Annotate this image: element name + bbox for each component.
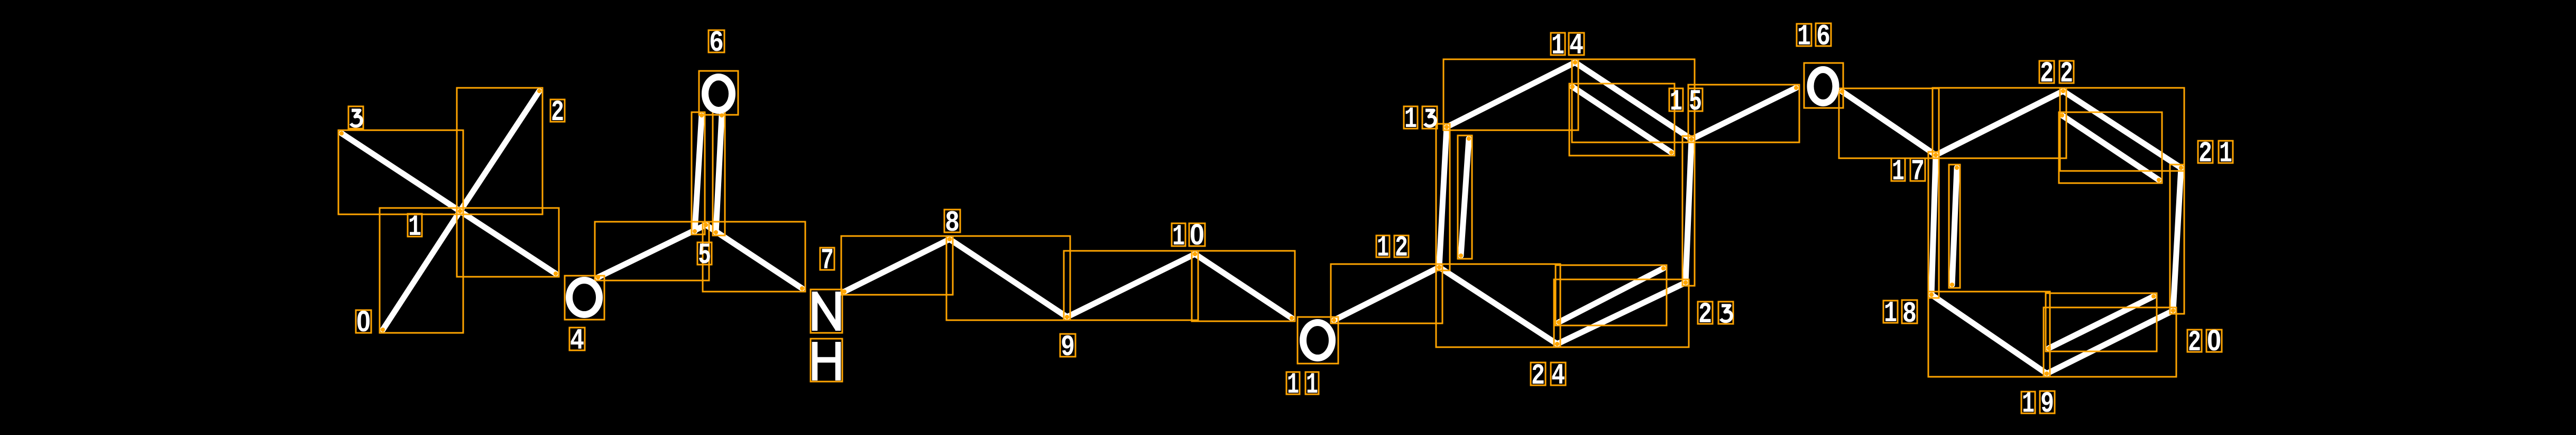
svg-text:1: 1 <box>2219 137 2232 170</box>
box bond 9-10 with endpoint dots <box>1064 251 1198 320</box>
box bond 15-16 with endpoint dots <box>1688 85 1799 142</box>
svg-text:4: 4 <box>1569 29 1584 62</box>
svg-text:8: 8 <box>945 206 960 240</box>
svg-text:7: 7 <box>821 243 834 277</box>
svg-text:1: 1 <box>408 210 421 244</box>
svg-text:1: 1 <box>1551 29 1565 62</box>
aromatic inner 12=13 <box>1461 139 1469 256</box>
double bond 5=6 line A <box>695 115 702 231</box>
label 2 <box>550 99 565 122</box>
svg-text:5: 5 <box>698 238 711 272</box>
box aromatic inner 19=20 with endpoint dots <box>2046 293 2157 351</box>
svg-text:2: 2 <box>2198 137 2212 170</box>
svg-text:1: 1 <box>1884 296 1897 330</box>
label 9 <box>1060 334 1075 357</box>
label 10 <box>1172 223 1185 246</box>
label 23 <box>1698 302 1713 324</box>
svg-text:5: 5 <box>1689 85 1702 119</box>
label 18 <box>1883 301 1898 323</box>
svg-text:2: 2 <box>1395 231 1408 265</box>
svg-text:6: 6 <box>1816 20 1830 53</box>
aromatic inner 14=15 <box>1572 87 1671 152</box>
box bond 16-17 with endpoint dots <box>1839 88 1939 158</box>
box bond 20-21 with endpoint dots <box>2170 165 2184 314</box>
box aromatic inner 17=18 with endpoint dots <box>1949 165 1960 288</box>
svg-text:9: 9 <box>2040 387 2054 421</box>
label 14 <box>1551 33 1565 55</box>
svg-text:2: 2 <box>2188 325 2201 359</box>
box bond 23-24 with endpoint dots <box>1554 279 1689 347</box>
bond 19-20 <box>2047 311 2173 374</box>
box bond 8-9 with endpoint dots <box>946 236 1070 320</box>
bond 5-7 <box>706 225 802 288</box>
svg-text:0: 0 <box>2207 323 2221 357</box>
label 21 <box>2198 141 2213 163</box>
box double bond 5=6 line A with endpoint dots <box>692 112 705 234</box>
svg-text:1: 1 <box>1377 231 1389 265</box>
bond 9-10 <box>1067 254 1195 317</box>
svg-text:8: 8 <box>1902 297 1917 331</box>
svg-text:0: 0 <box>1190 217 1204 251</box>
box bond 22-17 with endpoint dots <box>1933 88 2066 158</box>
bond 24-12 <box>1439 267 1557 344</box>
atom box O11 <box>1298 317 1338 364</box>
atom box O6 <box>699 71 738 115</box>
label 11 <box>1286 372 1300 394</box>
bond 8-9 <box>950 239 1067 317</box>
svg-text:1: 1 <box>1172 220 1185 253</box>
label 7 <box>820 248 834 270</box>
box bond 21-22 with endpoint dots <box>2060 88 2184 171</box>
label 24 <box>1531 362 1545 385</box>
bond 12-13 <box>1439 127 1447 267</box>
atom O16 <box>1810 70 1836 103</box>
box aromatic inner 14=15 with endpoint dots <box>1569 84 1675 156</box>
bond 10-11 <box>1195 254 1292 318</box>
aromatic inner 17=18 <box>1952 168 1957 285</box>
svg-text:1: 1 <box>1404 102 1417 136</box>
bond 17-18 <box>1931 155 1936 295</box>
bond 16-17 <box>1842 92 1936 155</box>
label 15 <box>1669 88 1683 111</box>
box bond 1-3 with endpoint dots <box>338 130 463 214</box>
bond 1-4 <box>460 211 556 274</box>
bond 4-5 <box>598 225 706 277</box>
atom box N7 <box>811 289 842 333</box>
box bond 24-12 with endpoint dots <box>1436 264 1560 347</box>
box bond 19-20 with endpoint dots <box>2044 307 2176 377</box>
atom N7 (N) <box>815 292 838 331</box>
bond 21-22 <box>2063 91 2181 168</box>
aromatic inner 21=22 <box>2062 115 2159 180</box>
label 13 <box>1404 106 1418 129</box>
bond 18-19 <box>1931 295 2047 374</box>
box aromatic inner 21=22 with endpoint dots <box>2059 112 2162 183</box>
svg-text:2: 2 <box>551 95 564 129</box>
aromatic inner 23=24 <box>1559 268 1663 322</box>
label 19 <box>2021 392 2035 413</box>
bond 15-16 <box>1691 88 1796 139</box>
label 12 <box>1376 235 1390 257</box>
svg-text:2: 2 <box>2060 57 2073 90</box>
svg-text:9: 9 <box>1061 330 1075 364</box>
box bond 5-7 with endpoint dots <box>703 222 805 292</box>
box bond 11-12 with endpoint dots <box>1331 264 1442 323</box>
box bond 14-15 with endpoint dots <box>1572 59 1695 142</box>
label 1 <box>408 214 422 237</box>
label 3 <box>348 106 363 129</box>
label 4 <box>569 328 585 350</box>
bond 7-8 <box>844 239 950 292</box>
svg-text:1: 1 <box>1306 368 1318 402</box>
box bond 1-4 with endpoint dots <box>457 208 559 277</box>
svg-text:0: 0 <box>356 304 371 338</box>
bond 1-3 <box>342 133 460 211</box>
label 16 <box>1797 24 1811 46</box>
box bond 1-2 with endpoint dots <box>457 88 542 214</box>
label 17 <box>1891 158 1905 181</box>
label 22 <box>2039 61 2054 83</box>
svg-text:1: 1 <box>1797 20 1811 53</box>
svg-text:2: 2 <box>1698 297 1712 331</box>
label 20 <box>2187 330 2202 352</box>
atom O4 <box>569 280 600 315</box>
svg-text:1: 1 <box>1892 155 1905 188</box>
svg-text:1: 1 <box>2022 387 2035 421</box>
atom O11 <box>1303 323 1332 358</box>
aromatic inner 19=20 <box>2049 296 2154 348</box>
svg-text:1: 1 <box>1670 85 1682 119</box>
box double bond 5=6 line B with endpoint dots <box>713 112 725 235</box>
label 8 <box>944 210 960 232</box>
svg-text:2: 2 <box>2040 57 2054 90</box>
label 0 <box>356 310 371 333</box>
label 5 <box>697 242 712 265</box>
bond 22-17 <box>1936 91 2063 155</box>
atom box O16 <box>1804 63 1843 108</box>
box aromatic inner 23=24 with endpoint dots <box>1556 265 1667 325</box>
svg-text:2: 2 <box>1531 359 1545 393</box>
box bond 10-11 with endpoint dots <box>1192 251 1295 321</box>
box aromatic inner 12=13 with endpoint dots <box>1458 135 1472 259</box>
label 6 <box>709 30 724 52</box>
box bond 12-13 with endpoint dots <box>1436 124 1450 270</box>
bond 20-21 <box>2173 168 2181 311</box>
double bond 5=6 line B <box>716 115 722 232</box>
box bond 13-14 with endpoint dots <box>1443 59 1578 130</box>
box bond 7-8 with endpoint dots <box>841 236 953 295</box>
bond 1-0 <box>383 211 460 330</box>
bond 23-24 <box>1557 283 1686 344</box>
box bond 15-23 with endpoint dots <box>1682 136 1695 286</box>
bond 11-12 <box>1334 267 1439 320</box>
svg-text:7: 7 <box>1911 155 1925 188</box>
atom O6 <box>705 77 732 111</box>
bond 13-14 <box>1447 62 1575 127</box>
atom N7 (H) <box>815 342 838 380</box>
svg-text:1: 1 <box>1287 368 1299 402</box>
bond 14-15 <box>1575 62 1691 139</box>
atom box H7 <box>811 339 842 382</box>
box bond 4-5 with endpoint dots <box>595 222 709 280</box>
bond 1-2 <box>460 91 539 211</box>
box bond 17-18 with endpoint dots <box>1928 152 1939 298</box>
svg-text:4: 4 <box>1551 359 1565 393</box>
bond 15-23 <box>1686 139 1691 283</box>
box bond 18-19 with endpoint dots <box>1928 292 2050 377</box>
atom box O4 <box>565 276 604 320</box>
svg-text:4: 4 <box>570 324 584 358</box>
box bond 1-0 with endpoint dots <box>380 208 463 333</box>
svg-text:6: 6 <box>709 26 724 60</box>
